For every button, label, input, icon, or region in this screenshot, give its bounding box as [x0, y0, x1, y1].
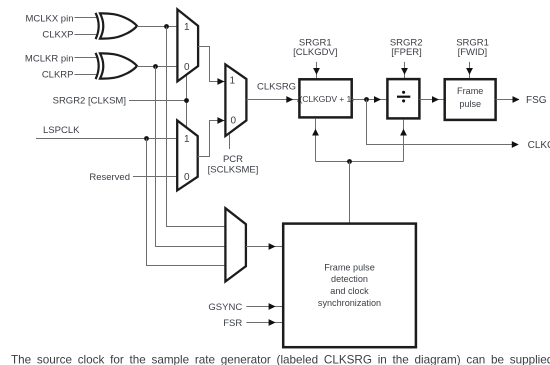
svg-text:LSPCLK: LSPCLK [43, 125, 80, 136]
svg-text:1: 1 [184, 134, 190, 145]
svg-text:/(CLKGDV + 1): /(CLKGDV + 1) [297, 94, 354, 104]
wire SRGR2 FPER down into divide-by [404, 62, 406, 79]
arrow into detection box from mux M4 [269, 243, 276, 250]
frame pulse box U5 [445, 79, 496, 120]
svg-text:The source clock for the sampl: The source clock for the sample rate gen… [11, 354, 550, 365]
label SRGR1 [CLKGDV] [293, 37, 337, 58]
xor gate U2 (MCLKR XOR CLKRP) [96, 53, 137, 79]
svg-text:0: 0 [184, 172, 190, 183]
wire feedback horizontal [316, 161, 404, 163]
junction node XOR1 out [164, 24, 169, 29]
arrow FSR into detection box [269, 319, 276, 326]
mux M4 (sync source mux) [225, 208, 246, 281]
svg-text:Frame pulse: Frame pulse [324, 262, 375, 272]
svg-text:CLKXP: CLKXP [42, 30, 73, 41]
wire MCLKX pin input [75, 17, 98, 19]
svg-text:Frame: Frame [457, 86, 483, 96]
wire CLKSRG to divider [246, 99, 299, 101]
svg-text:Reserved: Reserved [89, 172, 130, 183]
wire XOR2 branch down to mux M4 [156, 67, 226, 247]
arrow down into divider top [313, 68, 320, 75]
junction node CLKSM [184, 98, 189, 103]
wire SRGR1 FWID down into frame pulse [469, 62, 471, 79]
mux M2 (LSPCLK/Reserved mux) [177, 120, 198, 190]
arrow up into divider bottom [312, 129, 319, 136]
arrow into divider box [286, 96, 293, 103]
arrow into frame pulse box [432, 96, 439, 103]
svg-text:CLKG: CLKG [528, 140, 550, 151]
label PCR [SCLKSME] [208, 154, 259, 176]
wire XOR2 output to mux M1 [137, 66, 177, 68]
wire mux M4 output to detection box [246, 246, 283, 248]
wire divide-by output to frame pulse box [419, 99, 444, 101]
wire XOR1 branch down to mux M4 [167, 27, 226, 227]
svg-text:CLKRP: CLKRP [42, 70, 74, 81]
junction node feedback [347, 159, 352, 164]
wire SRGR2 CLKSM select [129, 75, 187, 128]
wire SRGR1 CLKGDV down into divider [316, 62, 318, 79]
wire CLKRP input [75, 74, 98, 76]
arrow into divide-by box [374, 96, 381, 103]
svg-text:PCR: PCR [223, 154, 243, 165]
wire CLKXP input [75, 34, 98, 36]
divider box U3 [297, 79, 354, 117]
svg-text:and clock: and clock [330, 286, 369, 296]
svg-text:0: 0 [184, 62, 190, 73]
svg-text:FSR: FSR [223, 318, 242, 329]
svg-text:MCLKR pin: MCLKR pin [25, 53, 74, 64]
wire feedback up into divide-by bottom [403, 120, 405, 162]
arrow down into frame pulse top [466, 68, 473, 75]
svg-text:[FPER]: [FPER] [391, 47, 422, 58]
arrow CLKG [512, 141, 519, 148]
arrow up into divide-by bottom [400, 129, 407, 136]
svg-text:detection: detection [331, 274, 368, 284]
svg-text:synchronization: synchronization [318, 298, 381, 308]
wire mux M2 output to PCR mux input 0 [198, 121, 226, 157]
wire sync line down into detection box [349, 162, 351, 224]
wire CLKG branch down and right [367, 100, 513, 145]
svg-text:1: 1 [230, 76, 236, 87]
svg-text:pulse: pulse [459, 99, 481, 109]
svg-text:FSG: FSG [526, 95, 547, 106]
arrow down into divide-by top [401, 68, 408, 75]
wire feedback up into divider bottom [315, 119, 317, 162]
svg-text:[CLKGDV]: [CLKGDV] [293, 47, 337, 58]
wire GSYNC [246, 306, 283, 308]
wire LSPCLK [36, 138, 177, 140]
svg-text:1: 1 [184, 22, 190, 33]
label SRGR1 [FWID] [456, 37, 489, 58]
arrow GSYNC into detection box [269, 303, 276, 310]
svg-text:MCLKX pin: MCLKX pin [25, 13, 73, 24]
arrow into PCR mux input 1 [217, 78, 224, 85]
svg-text:SRGR2 [CLKSM]: SRGR2 [CLKSM] [53, 95, 126, 106]
wire mux M1 output to PCR mux input 1 [198, 47, 225, 82]
arrow FSG [513, 96, 520, 103]
wire LSPCLK branch down to mux M4 [147, 139, 226, 266]
junction node XOR2 out [153, 64, 158, 69]
mux M1 (CLKSM pin mux) [177, 9, 198, 81]
xor gate U1 (MCLKX XOR CLKXP) [96, 13, 137, 39]
svg-text:GSYNC: GSYNC [208, 302, 242, 313]
divide-by box U4 [387, 79, 419, 118]
wire PCR select stub [229, 134, 231, 149]
frame pulse detection box U6 [283, 224, 416, 348]
wire XOR1 output to mux M1 [137, 26, 177, 28]
junction node CLKG branch [364, 97, 369, 102]
arrow into PCR mux input 0 [217, 117, 224, 124]
mux M3 (PCR SCLKSME mux) [225, 64, 246, 136]
wire divider output to divide-by box [352, 99, 388, 101]
junction node LSPCLK [144, 136, 149, 141]
svg-text:CLKSRG: CLKSRG [257, 81, 296, 92]
wire FSR [246, 322, 283, 324]
wire Reserved [133, 176, 177, 178]
wire MCLKR pin input [75, 57, 98, 59]
svg-text:[FWID]: [FWID] [458, 47, 488, 58]
svg-text:0: 0 [231, 116, 237, 127]
label SRGR2 [FPER] [390, 37, 423, 58]
svg-text:[SCLKSME]: [SCLKSME] [208, 165, 259, 176]
wire FSG output [496, 99, 519, 101]
